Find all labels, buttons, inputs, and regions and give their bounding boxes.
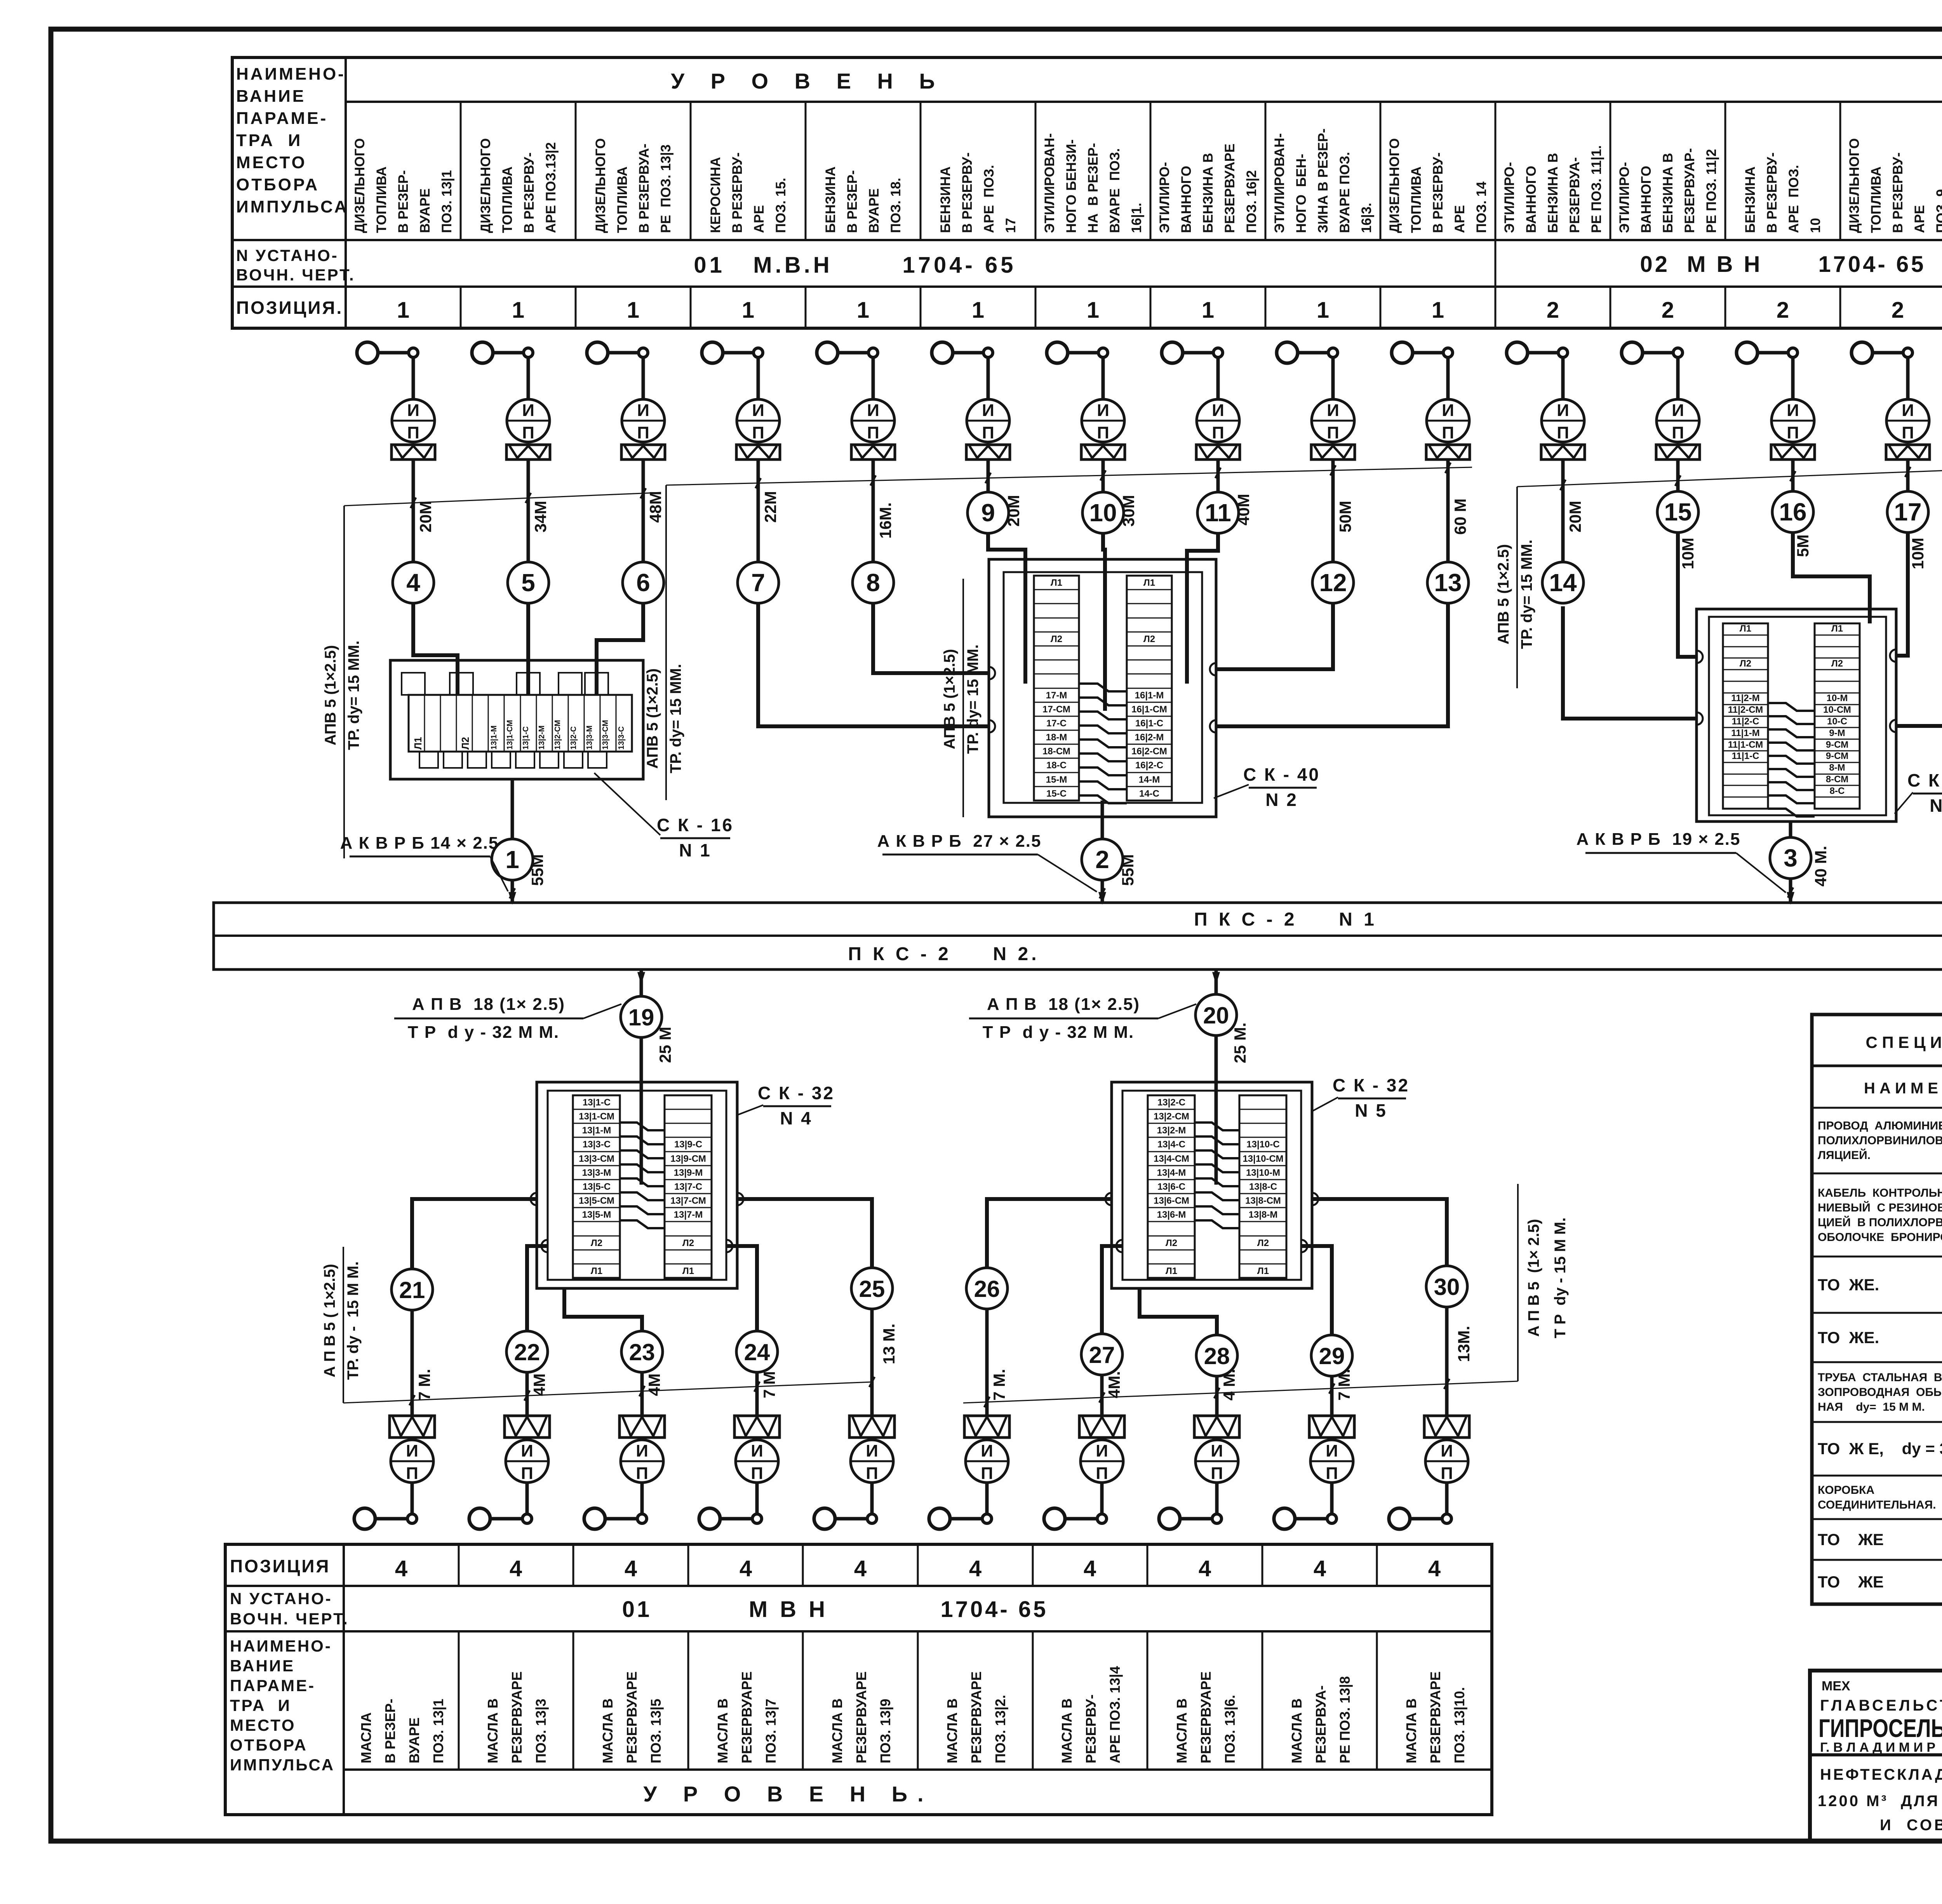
svg-text:ИМПУЛЬСА: ИМПУЛЬСА <box>236 197 348 216</box>
svg-text:4: 4 <box>1199 1556 1211 1581</box>
svg-text:РЕЗЕРВУАРЕ: РЕЗЕРВУАРЕ <box>1222 144 1237 233</box>
cable group route line nodes 21-25 <box>343 1382 872 1403</box>
level pickup circles unit 13 <box>1392 342 1413 363</box>
svg-text:2: 2 <box>1547 298 1559 323</box>
wire node 13 into СК-40 N2 <box>1216 603 1448 726</box>
svg-text:N 5: N 5 <box>1355 1100 1387 1121</box>
svg-text:ПОЗ. 13|1: ПОЗ. 13|1 <box>430 1699 447 1763</box>
svg-text:ПРОВОД АЛЮМИНИЕВЫЙ С: ПРОВОД АЛЮМИНИЕВЫЙ С <box>1818 1119 1942 1132</box>
wire instrument to pickup 23 <box>640 1483 644 1514</box>
svg-text:А П В 5 ( 1×2.5): А П В 5 ( 1×2.5) <box>321 1264 338 1377</box>
svg-text:В РЕЗЕРВУ-: В РЕЗЕРВУ- <box>730 152 745 233</box>
svg-text:4М: 4М <box>530 1373 548 1396</box>
wire terminal to node 13 <box>1446 459 1450 562</box>
node circle 16 <box>1772 491 1813 533</box>
svg-text:ГИПРОСЕЛЬХОЗПРОМ: ГИПРОСЕЛЬХОЗПРОМ <box>1818 1714 1942 1742</box>
junction box СК-32 N3 left strip <box>1723 623 1768 809</box>
wires into СК-16 N1 <box>413 603 458 695</box>
svg-text:1200 М³ ДЛЯ КОЛХОЗОВ: 1200 М³ ДЛЯ КОЛХОЗОВ <box>1818 1793 1942 1810</box>
node circle 1 <box>492 839 533 880</box>
level pickup circles lower unit 23 <box>584 1508 605 1529</box>
svg-text:25 М: 25 М <box>656 1027 674 1063</box>
svg-text:13|2-С: 13|2-С <box>569 726 578 750</box>
svg-text:РЕЗЕРВУАРЕ: РЕЗЕРВУАРЕ <box>739 1671 755 1763</box>
svg-text:ТО ЖЕ.: ТО ЖЕ. <box>1818 1276 1879 1294</box>
svg-text:1: 1 <box>512 298 524 323</box>
wire СК-32 N3 to node 3 <box>1789 821 1792 837</box>
svg-text:У Р О В Е Н Ь.: У Р О В Е Н Ь. <box>643 1782 933 1806</box>
svg-text:ЭТИЛИРОВАН-: ЭТИЛИРОВАН- <box>1272 133 1287 233</box>
svg-text:С К - 32: С К - 32 <box>758 1083 835 1103</box>
wire instrument to pickup 22 <box>526 1483 529 1514</box>
node circle 23 <box>621 1331 663 1372</box>
svg-text:11|2-С: 11|2-С <box>1732 716 1759 727</box>
terminal block unit 12 <box>1311 445 1355 459</box>
svg-text:А П В 5 (1× 2.5): А П В 5 (1× 2.5) <box>1525 1219 1542 1337</box>
svg-text:16: 16 <box>1779 498 1806 526</box>
svg-text:13|7-С: 13|7-С <box>674 1182 702 1192</box>
svg-text:МЕСТО: МЕСТО <box>230 1716 296 1734</box>
svg-text:13|3-СМ: 13|3-СМ <box>579 1154 614 1164</box>
svg-text:ДИЗЕЛЬНОГО: ДИЗЕЛЬНОГО <box>1387 138 1402 233</box>
instrument И/П unit 9 <box>967 399 1009 442</box>
svg-text:Г. В Л А Д И М И Р: Г. В Л А Д И М И Р <box>1820 1740 1935 1755</box>
wire СК-32 N4 to node 21 <box>412 1199 537 1269</box>
node circle 2 <box>1082 839 1123 880</box>
svg-text:КОРОБКА: КОРОБКА <box>1818 1484 1874 1497</box>
svg-text:РЕ ПОЗ. 13|8: РЕ ПОЗ. 13|8 <box>1337 1676 1353 1763</box>
svg-text:В РЕЗЕР-: В РЕЗЕР- <box>396 170 411 233</box>
level pickup circles unit 16 <box>1737 342 1758 363</box>
instrument И/П lower unit 23 <box>621 1440 663 1483</box>
svg-text:ВАННОГО: ВАННОГО <box>1639 166 1654 233</box>
svg-text:ПОЗ. 13|3: ПОЗ. 13|3 <box>533 1699 549 1763</box>
svg-text:13|3-С: 13|3-С <box>583 1139 611 1150</box>
svg-text:СОЕДИНИТЕЛЬНАЯ.: СОЕДИНИТЕЛЬНАЯ. <box>1818 1498 1936 1511</box>
junction box СК-40 N2 left strip <box>1034 576 1079 801</box>
junction box СК-32 N5 jumpers <box>1195 1123 1239 1130</box>
node circle 13 <box>1427 562 1469 603</box>
terminal block unit 11 <box>1196 445 1240 459</box>
svg-text:9-М: 9-М <box>1829 728 1845 738</box>
specification table frame <box>1812 1015 1942 1604</box>
svg-text:ВУАРЕ: ВУАРЕ <box>418 188 433 233</box>
node circle 9 <box>968 492 1009 533</box>
svg-text:15-С: 15-С <box>1046 788 1067 799</box>
svg-text:13|5-С: 13|5-С <box>583 1182 611 1192</box>
wire terminal to node 8 <box>872 459 875 562</box>
svg-text:БЕНЗИНА В: БЕНЗИНА В <box>1201 153 1216 233</box>
node circle 7 <box>738 562 779 603</box>
svg-text:17-М: 17-М <box>1046 690 1067 701</box>
wire node 29 to terminal <box>1330 1376 1334 1416</box>
title block horizontal dividers <box>1810 1753 1942 1756</box>
svg-text:П К С - 2 N 1: П К С - 2 N 1 <box>1194 909 1377 930</box>
instrument И/П lower unit 30 <box>1425 1440 1468 1483</box>
svg-text:ТОПЛИВА: ТОПЛИВА <box>374 167 389 233</box>
svg-text:И: И <box>867 401 879 420</box>
svg-text:РЕЗЕРВУ-: РЕЗЕРВУ- <box>1083 1694 1099 1763</box>
svg-text:В РЕЗЕР-: В РЕЗЕР- <box>845 170 860 233</box>
svg-text:РЕЗЕРВУАР-: РЕЗЕРВУАР- <box>1682 148 1697 233</box>
svg-text:РЕ ПОЗ. 11|1.: РЕ ПОЗ. 11|1. <box>1589 145 1604 233</box>
node circle 12 <box>1312 562 1354 603</box>
svg-text:РЕЗЕРВУАРЕ: РЕЗЕРВУАРЕ <box>1427 1671 1443 1763</box>
svg-text:ЭТИЛИРО-: ЭТИЛИРО- <box>1617 162 1632 233</box>
svg-text:С К - 32: С К - 32 <box>1333 1075 1410 1095</box>
svg-text:17-СМ: 17-СМ <box>1042 704 1070 715</box>
wire node 27 to terminal <box>1100 1375 1104 1416</box>
wire СК-32 N5 to node 29 <box>1301 1246 1332 1335</box>
instrument И/П lower unit 27 <box>1081 1440 1123 1483</box>
level pickup circles lower unit 25 <box>814 1508 835 1529</box>
wire instrument to pickup 27 <box>1100 1483 1104 1514</box>
svg-text:13 М.: 13 М. <box>880 1323 898 1364</box>
svg-text:Л1: Л1 <box>1740 623 1751 634</box>
cable group route line units 4-6 <box>344 493 661 506</box>
svg-text:14: 14 <box>1549 569 1577 597</box>
svg-text:1: 1 <box>1317 298 1329 323</box>
wire pickup to instrument 13 <box>1446 357 1450 399</box>
svg-text:ДИЗЕЛЬНОГО: ДИЗЕЛЬНОГО <box>593 138 608 233</box>
wire terminal to node 14 <box>1561 459 1565 562</box>
svg-text:22: 22 <box>514 1339 540 1365</box>
wire terminal to node 5 <box>527 459 530 562</box>
svg-text:И: И <box>751 1441 763 1460</box>
svg-text:А П В 18 (1× 2.5): А П В 18 (1× 2.5) <box>987 995 1140 1014</box>
cable group route line units 14-18 <box>1517 467 1942 487</box>
svg-text:60 М: 60 М <box>1451 498 1469 534</box>
wire terminal to node 12 <box>1331 459 1335 562</box>
svg-text:29: 29 <box>1319 1343 1345 1369</box>
svg-text:ДИЗЕЛЬНОГО: ДИЗЕЛЬНОГО <box>1847 138 1862 233</box>
cable group АПВ5 label (units 14-18) <box>1516 487 1518 688</box>
svg-text:МЕСТО: МЕСТО <box>236 153 307 172</box>
svg-text:П: П <box>1211 1464 1223 1483</box>
terminal block unit 15 <box>1656 445 1700 459</box>
svg-text:13|1-С: 13|1-С <box>522 726 530 750</box>
svg-text:4М.: 4М. <box>1105 1371 1123 1398</box>
svg-text:13: 13 <box>1434 569 1462 597</box>
svg-text:N 3: N 3 <box>1930 795 1942 816</box>
svg-text:10-С: 10-С <box>1827 716 1847 727</box>
svg-text:ТР. dy= 15 ММ.: ТР. dy= 15 ММ. <box>345 640 362 750</box>
svg-text:3: 3 <box>1784 844 1798 872</box>
svg-text:П: П <box>867 423 879 442</box>
wire СК-32 N4 to node 22 <box>527 1246 548 1331</box>
instrument И/П unit 5 <box>507 399 550 442</box>
svg-text:13|9-С: 13|9-С <box>674 1139 702 1150</box>
instrument И/П lower unit 28 <box>1195 1440 1238 1483</box>
wire instrument to pickup 26 <box>985 1483 989 1514</box>
wire instrument to pickup 28 <box>1215 1483 1219 1514</box>
svg-text:В РЕЗЕРВУ-: В РЕЗЕРВУ- <box>522 152 537 233</box>
svg-text:М В Н: М В Н <box>749 1597 828 1622</box>
terminal block unit 7 <box>736 445 780 459</box>
svg-text:С К - 32: С К - 32 <box>1907 770 1942 790</box>
svg-text:2: 2 <box>1892 298 1904 323</box>
junction box СК-32 N4 left strip <box>573 1095 620 1278</box>
svg-text:ТР. dy= 15 ММ.: ТР. dy= 15 ММ. <box>964 644 981 754</box>
svg-text:РЕ ПОЗ. 11|2: РЕ ПОЗ. 11|2 <box>1704 149 1719 233</box>
node circle 3 <box>1770 837 1811 879</box>
svg-text:4: 4 <box>625 1556 637 1581</box>
svg-text:ТО ЖЕ: ТО ЖЕ <box>1818 1573 1884 1591</box>
svg-text:Т Р d у - 32 М М.: Т Р d у - 32 М М. <box>983 1023 1135 1042</box>
wire node 10 into СК-40 N2 <box>1103 533 1105 711</box>
node circle 10 <box>1082 492 1124 533</box>
title block frame <box>1810 1671 1942 1841</box>
terminal block unit 13 <box>1426 445 1470 459</box>
svg-text:ПОЗ. 18.: ПОЗ. 18. <box>888 178 903 233</box>
svg-text:ТОПЛИВА: ТОПЛИВА <box>500 167 515 233</box>
svg-text:15: 15 <box>1664 498 1691 526</box>
svg-text:КЕРОСИНА: КЕРОСИНА <box>708 157 723 233</box>
terminal block unit 5 <box>506 445 550 459</box>
svg-text:ЗОПРОВОДНАЯ ОБЫКНОВЕН-: ЗОПРОВОДНАЯ ОБЫКНОВЕН- <box>1818 1386 1942 1399</box>
svg-text:13|3-М: 13|3-М <box>585 726 594 750</box>
instrument И/П lower unit 21 <box>391 1440 433 1483</box>
level pickup circles lower unit 27 <box>1044 1508 1065 1529</box>
terminal block lower unit 21 <box>390 1416 435 1438</box>
svg-text:И: И <box>522 401 534 420</box>
svg-text:4: 4 <box>969 1556 981 1581</box>
svg-text:4: 4 <box>1428 1556 1441 1581</box>
svg-text:С П Е Ц И Ф И К А Ц И Я О: С П Е Ц И Ф И К А Ц И Я О С Н О В Н Ы Х … <box>1865 1033 1942 1051</box>
wire pickup to instrument 11 <box>1216 357 1220 399</box>
svg-text:13|2-С: 13|2-С <box>1157 1097 1185 1108</box>
svg-text:1704- 65: 1704- 65 <box>1818 252 1926 277</box>
svg-text:ТОПЛИВА: ТОПЛИВА <box>1409 167 1424 233</box>
svg-text:РЕЗЕРВУАРЕ: РЕЗЕРВУАРЕ <box>968 1671 984 1763</box>
svg-text:Л1: Л1 <box>1257 1266 1269 1276</box>
svg-text:8-М: 8-М <box>1829 762 1845 773</box>
level pickup circles lower unit 30 <box>1389 1508 1410 1529</box>
svg-text:ВУАРЕ ПОЗ.: ВУАРЕ ПОЗ. <box>1337 152 1352 233</box>
cable group АПВ5 label (bottom left) <box>343 1247 344 1403</box>
svg-text:В РЕЗЕРВУ-: В РЕЗЕРВУ- <box>1765 152 1780 233</box>
svg-text:И: И <box>982 401 994 420</box>
svg-text:11|1-СМ: 11|1-СМ <box>1728 740 1763 750</box>
svg-text:28: 28 <box>1204 1343 1230 1369</box>
svg-text:16|2-М: 16|2-М <box>1135 732 1164 743</box>
svg-text:ТО ЖЕ: ТО ЖЕ <box>1818 1530 1884 1549</box>
svg-text:МАСЛА В: МАСЛА В <box>715 1699 731 1763</box>
svg-text:ВАНИЕ: ВАНИЕ <box>230 1657 295 1675</box>
svg-text:7 М.: 7 М. <box>990 1369 1008 1401</box>
svg-text:Л1: Л1 <box>591 1266 602 1276</box>
svg-text:Л1: Л1 <box>682 1266 694 1276</box>
junction box СК-32 N4 outline <box>537 1082 737 1288</box>
svg-text:П: П <box>1672 423 1684 442</box>
terminal block unit 9 <box>966 445 1010 459</box>
svg-text:П: П <box>1441 1464 1453 1483</box>
terminal block unit 10 <box>1081 445 1125 459</box>
terminal block unit 14 <box>1541 445 1585 459</box>
svg-text:ВУАРЕ ПОЗ.: ВУАРЕ ПОЗ. <box>1107 148 1122 233</box>
svg-text:А П В 18 (1× 2.5): А П В 18 (1× 2.5) <box>412 995 565 1014</box>
svg-text:10-М: 10-М <box>1827 693 1848 703</box>
svg-text:ЭТИЛИРОВАН-: ЭТИЛИРОВАН- <box>1042 133 1057 233</box>
junction box СК-40 N2 right strip <box>1127 576 1172 801</box>
node circle 21 <box>392 1269 433 1310</box>
node circle 14 <box>1542 562 1584 603</box>
svg-text:И: И <box>521 1441 533 1460</box>
node circle 30 <box>1426 1266 1467 1307</box>
svg-text:ТОПЛИВА: ТОПЛИВА <box>615 167 630 233</box>
bottom parameter table frame <box>225 1544 1492 1815</box>
wire terminal to node 10 <box>1102 459 1105 492</box>
svg-text:И: И <box>1557 401 1569 420</box>
level pickup circles lower unit 29 <box>1274 1508 1295 1529</box>
svg-text:11|2-М: 11|2-М <box>1731 693 1759 703</box>
svg-text:Л2: Л2 <box>682 1238 694 1248</box>
wire node 12 into СК-40 N2 <box>1216 603 1333 669</box>
svg-text:6: 6 <box>636 569 650 597</box>
bottom table row lines <box>225 1585 1492 1587</box>
svg-text:И: И <box>1326 1441 1338 1460</box>
wire СК-40 N2 to node 2 <box>1101 801 1104 839</box>
junction box СК-32 N5 right strip <box>1239 1095 1286 1278</box>
wire node 11 into СК-40 N2 <box>1187 533 1218 684</box>
terminal block lower unit 22 <box>505 1416 550 1438</box>
node circle 11 <box>1197 492 1239 533</box>
cable group АПВ5 label (units 9-13) <box>962 579 964 817</box>
svg-text:14-М: 14-М <box>1139 774 1160 785</box>
svg-text:17: 17 <box>1003 218 1018 233</box>
junction box СК-32 N3 jumpers <box>1768 703 1815 711</box>
wire pickup to instrument 8 <box>872 357 875 399</box>
terminal block unit 8 <box>851 445 895 459</box>
svg-text:55М: 55М <box>528 854 546 886</box>
svg-text:23: 23 <box>629 1339 655 1365</box>
svg-text:МЕХ: МЕХ <box>1822 1679 1850 1693</box>
svg-text:В РЕЗЕРВУА-: В РЕЗЕРВУА- <box>637 144 652 233</box>
wire instrument to pickup 29 <box>1330 1483 1334 1514</box>
level pickup circles lower unit 21 <box>354 1508 375 1529</box>
svg-text:П: П <box>1442 423 1454 442</box>
svg-text:ТО ЖЕ.: ТО ЖЕ. <box>1818 1328 1879 1347</box>
svg-text:17: 17 <box>1894 498 1921 526</box>
svg-text:N 1: N 1 <box>679 840 712 860</box>
wire trunk to node 19 <box>640 969 643 996</box>
svg-text:13|9-СМ: 13|9-СМ <box>670 1154 706 1164</box>
wire pickup to instrument 14 <box>1561 357 1565 399</box>
cable group АПВ5 label (bottom right) <box>1517 1184 1519 1381</box>
svg-text:ТРА И: ТРА И <box>236 131 302 150</box>
svg-text:А К В Р Б 19 × 2.5: А К В Р Б 19 × 2.5 <box>1577 830 1741 849</box>
junction box СК-32 N4 right strip <box>665 1095 712 1278</box>
svg-text:Л1: Л1 <box>412 737 424 750</box>
svg-text:1704- 65: 1704- 65 <box>903 252 1016 278</box>
svg-text:П: П <box>521 1464 533 1483</box>
svg-text:П: П <box>1212 423 1224 442</box>
node circle 29 <box>1311 1335 1352 1376</box>
svg-text:13|2-СМ: 13|2-СМ <box>553 720 562 750</box>
terminal block lower unit 27 <box>1079 1416 1124 1438</box>
wire node 1 to trunk ПКС <box>511 880 514 903</box>
svg-text:ПОЗИЦИЯ: ПОЗИЦИЯ <box>230 1556 330 1576</box>
wire node 15 into СК-32 N3 <box>1678 533 1697 657</box>
svg-text:АПВ 5 (1×2.5): АПВ 5 (1×2.5) <box>1495 544 1512 644</box>
svg-text:13|5-М: 13|5-М <box>582 1210 611 1220</box>
svg-text:ПОЗ. 13|2.: ПОЗ. 13|2. <box>992 1695 1009 1763</box>
svg-text:16|1-С: 16|1-С <box>1135 718 1163 729</box>
level pickup circles lower unit 28 <box>1159 1508 1180 1529</box>
svg-text:АРЕ ПОЗ. 13|4: АРЕ ПОЗ. 13|4 <box>1107 1666 1123 1763</box>
svg-text:И: И <box>1442 401 1454 420</box>
svg-text:13|1-С: 13|1-С <box>583 1097 611 1108</box>
node circle 15 <box>1657 491 1698 533</box>
svg-text:МАСЛА В: МАСЛА В <box>1403 1699 1419 1763</box>
terminal block lower unit 24 <box>734 1416 780 1438</box>
svg-text:N УСТАНО-: N УСТАНО- <box>230 1589 332 1608</box>
svg-text:16|3.: 16|3. <box>1359 203 1374 233</box>
node circle 20 <box>1195 994 1237 1036</box>
svg-text:11: 11 <box>1205 499 1231 527</box>
svg-text:13|8-М: 13|8-М <box>1249 1210 1278 1220</box>
svg-text:С К - 16: С К - 16 <box>657 815 734 835</box>
svg-text:И: И <box>406 1441 418 1460</box>
svg-text:МАСЛА: МАСЛА <box>358 1713 374 1763</box>
wire node 19 to СК-32 N4 <box>640 1037 643 1082</box>
svg-text:20М: 20М <box>416 501 435 533</box>
svg-text:2: 2 <box>1662 298 1674 323</box>
svg-text:13|3-М: 13|3-М <box>582 1168 611 1178</box>
wire node 3 to trunk ПКС <box>1789 879 1792 903</box>
node circle 5 <box>508 562 549 603</box>
level pickup circles unit 5 <box>472 342 493 363</box>
svg-text:4: 4 <box>406 569 420 597</box>
svg-text:ОБОЛОЧКЕ БРОНИРОВАННЫЙ.: ОБОЛОЧКЕ БРОНИРОВАННЫЙ. <box>1818 1230 1942 1244</box>
svg-text:12: 12 <box>1319 569 1347 597</box>
svg-text:24: 24 <box>744 1339 770 1365</box>
svg-text:13|7-СМ: 13|7-СМ <box>670 1196 706 1206</box>
svg-text:Т Р d у - 32 М М.: Т Р d у - 32 М М. <box>408 1023 560 1042</box>
svg-text:ТР. dy= 15 ММ.: ТР. dy= 15 ММ. <box>1518 540 1535 649</box>
wire pickup to instrument 17 <box>1906 357 1910 399</box>
svg-text:П: П <box>636 1464 648 1483</box>
svg-text:И: И <box>636 1441 648 1460</box>
svg-text:N 4: N 4 <box>780 1108 813 1128</box>
svg-text:ВУАРЕ: ВУАРЕ <box>406 1718 422 1763</box>
svg-text:13М.: 13М. <box>1455 1326 1473 1362</box>
svg-text:АПВ 5 (1×2.5): АПВ 5 (1×2.5) <box>941 649 958 749</box>
wire riser inside N4 <box>640 1082 643 1185</box>
node circle 22 <box>506 1331 548 1372</box>
svg-text:ПАРАМЕ-: ПАРАМЕ- <box>236 109 328 128</box>
svg-text:ВАННОГО: ВАННОГО <box>1179 166 1194 233</box>
instrument И/П unit 11 <box>1197 399 1239 442</box>
cable group route line nodes 26-30 <box>963 1381 1518 1403</box>
svg-text:АРЕ ПОЗ.: АРЕ ПОЗ. <box>1786 165 1801 233</box>
svg-text:И: И <box>1211 1441 1223 1460</box>
svg-text:РЕЗЕРВУАРЕ: РЕЗЕРВУАРЕ <box>624 1671 640 1763</box>
svg-text:7 М: 7 М <box>760 1371 778 1398</box>
top parameter table frame <box>232 57 1942 328</box>
svg-text:22М: 22М <box>761 491 780 523</box>
svg-text:16|1.: 16|1. <box>1129 203 1144 233</box>
svg-text:55М: 55М <box>1119 854 1137 886</box>
svg-text:13|1-СМ: 13|1-СМ <box>506 720 514 750</box>
svg-text:20М: 20М <box>1566 501 1584 533</box>
svg-text:16|1-СМ: 16|1-СМ <box>1131 704 1167 715</box>
svg-text:50М: 50М <box>1336 501 1354 533</box>
node circle 26 <box>966 1268 1008 1309</box>
svg-text:4: 4 <box>740 1556 752 1581</box>
svg-text:ВУАРЕ: ВУАРЕ <box>867 188 882 233</box>
svg-text:Л1: Л1 <box>1143 578 1155 588</box>
